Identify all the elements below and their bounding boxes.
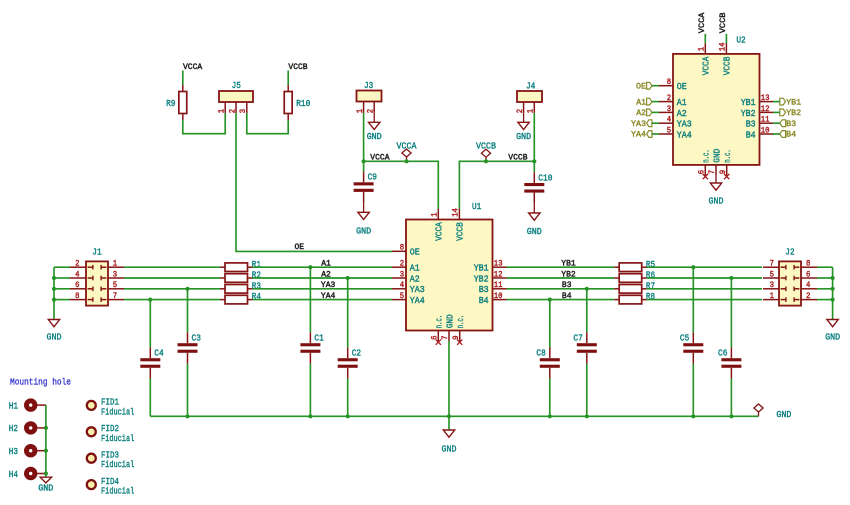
svg-text:n.c.: n.c. (722, 149, 733, 163)
svg-text:Fiducial: Fiducial (101, 459, 135, 470)
svg-text:B4: B4 (479, 295, 489, 306)
mounting hole H4 (9, 469, 46, 480)
svg-text:J3: J3 (364, 80, 373, 91)
svg-text:VCCB: VCCB (722, 56, 733, 75)
svg-text:GND: GND (47, 332, 62, 343)
wire J1 to R3 (124, 288, 220, 290)
wire U1 to R5 (507, 266, 615, 268)
svg-text:6: 6 (75, 282, 80, 290)
wire (817, 277, 833, 279)
wire GND bus (150, 415, 758, 417)
svg-text:A2: A2 (410, 273, 420, 284)
svg-text:YB1: YB1 (474, 263, 489, 274)
wire (652, 133, 659, 135)
svg-text:VCCA: VCCA (434, 222, 445, 241)
svg-text:2: 2 (517, 109, 525, 114)
junction (831, 276, 835, 280)
global label OE (636, 82, 652, 91)
svg-text:13: 13 (494, 261, 503, 269)
junction (346, 276, 350, 280)
svg-text:GND: GND (527, 226, 542, 237)
junction (585, 414, 589, 418)
svg-text:14: 14 (720, 42, 728, 51)
wire J1 to R2 (124, 277, 220, 279)
svg-text:Mounting hole: Mounting hole (10, 376, 71, 387)
ground (516, 122, 531, 142)
svg-text:5: 5 (667, 127, 672, 135)
svg-text:3: 3 (770, 282, 775, 290)
svg-text:R8: R8 (646, 291, 655, 302)
wire (704, 34, 706, 43)
junction (308, 414, 312, 418)
svg-text:J5: J5 (232, 80, 241, 91)
wire R2 to U1 (253, 277, 393, 279)
mounting hole H3 (9, 446, 46, 457)
resistor R7 (614, 280, 655, 293)
svg-text:OE: OE (410, 247, 420, 258)
ground (367, 122, 382, 142)
svg-text:YB1: YB1 (786, 98, 801, 107)
svg-text:GND: GND (356, 226, 371, 237)
svg-text:3: 3 (667, 106, 672, 114)
wire U1 to R7 (507, 288, 615, 290)
mounting hole H2 (9, 423, 46, 434)
wire U1 to R8 (507, 299, 615, 301)
junction (548, 414, 552, 418)
no-connect U2 pin 9 (724, 174, 729, 179)
junction (52, 276, 56, 280)
svg-text:14: 14 (453, 208, 461, 217)
svg-text:YA3: YA3 (677, 119, 692, 130)
svg-text:YA4: YA4 (677, 129, 692, 140)
svg-text:GND: GND (367, 131, 382, 142)
ground U2 (715, 176, 717, 183)
junction (308, 265, 312, 269)
svg-text:6: 6 (806, 271, 811, 279)
svg-text:C4: C4 (154, 348, 164, 359)
wire (183, 113, 225, 134)
svg-text:7: 7 (442, 335, 450, 340)
wire J1 ground bus (53, 267, 55, 319)
wire (54, 299, 70, 301)
wire (817, 288, 833, 290)
svg-text:2: 2 (229, 109, 237, 114)
wire R7 to J2 (647, 288, 762, 290)
svg-text:YB1: YB1 (741, 97, 756, 108)
wire (692, 364, 694, 417)
svg-text:OE: OE (295, 243, 305, 252)
resistor R8 (614, 291, 655, 304)
svg-text:B3: B3 (786, 120, 796, 129)
junction (691, 265, 695, 269)
global label A1 (636, 98, 652, 107)
wire to C6 (730, 278, 732, 347)
svg-text:R10: R10 (296, 98, 310, 109)
wire to C4 (149, 300, 151, 348)
svg-text:B3: B3 (479, 284, 489, 295)
resistor R3 (220, 280, 261, 293)
no-connect U1 pin 6 (436, 340, 441, 345)
svg-text:2: 2 (667, 95, 672, 103)
svg-text:A1: A1 (321, 260, 331, 269)
svg-text:VCCA: VCCA (698, 12, 707, 33)
svg-text:Fiducial: Fiducial (101, 406, 135, 417)
wire U1 to R6 (507, 277, 615, 279)
svg-text:8: 8 (667, 79, 672, 87)
svg-text:3: 3 (400, 271, 405, 279)
wire VCCB rail (459, 161, 534, 208)
svg-text:YB2: YB2 (786, 109, 801, 118)
capacitor C2 (338, 347, 361, 378)
resistor R6 (614, 270, 655, 283)
svg-text:4: 4 (667, 117, 672, 125)
fiducial FID4 (87, 476, 135, 497)
svg-text:A1: A1 (410, 263, 420, 274)
fiducial FID2 (87, 423, 135, 444)
svg-text:YA3: YA3 (410, 284, 425, 295)
connector J3 (357, 80, 382, 113)
svg-text:GND: GND (825, 331, 840, 342)
junction (831, 287, 835, 291)
svg-text:C2: C2 (352, 348, 361, 359)
svg-text:1: 1 (528, 109, 536, 114)
capacitor C3 (178, 332, 201, 363)
wire (247, 113, 288, 134)
wire to C8 (549, 300, 551, 348)
svg-text:C1: C1 (314, 333, 324, 344)
junction (585, 287, 589, 291)
global label A2 (636, 109, 652, 118)
svg-text:J4: J4 (526, 81, 536, 92)
global label YA3 (631, 120, 652, 129)
svg-text:A1: A1 (636, 98, 646, 107)
resistor R2 (220, 270, 261, 283)
svg-text:R3: R3 (252, 280, 261, 291)
wire (773, 111, 780, 113)
svg-text:R5: R5 (646, 259, 655, 270)
svg-text:GND: GND (444, 314, 455, 328)
wire R5 to J2 (647, 266, 762, 268)
wire (448, 416, 450, 430)
svg-text:11: 11 (494, 282, 503, 290)
svg-text:J1: J1 (92, 246, 102, 257)
resistor R9 (166, 85, 187, 120)
junction (52, 287, 56, 291)
junction (52, 298, 56, 302)
wire (586, 364, 588, 417)
junction (362, 159, 366, 163)
junction (44, 426, 48, 430)
junction (404, 159, 408, 163)
svg-text:2: 2 (400, 261, 405, 269)
junction (148, 298, 152, 302)
svg-text:A2: A2 (636, 109, 646, 118)
resistor R4 (220, 291, 261, 304)
connector J4 (517, 81, 542, 114)
svg-text:GND: GND (709, 195, 724, 206)
IC U2 (659, 34, 774, 175)
svg-text:n.c.: n.c. (701, 149, 712, 163)
svg-text:OE: OE (677, 81, 687, 92)
svg-text:H4: H4 (9, 469, 19, 480)
wire (549, 379, 551, 417)
svg-text:YA4: YA4 (321, 292, 336, 301)
svg-text:B3: B3 (746, 119, 756, 130)
svg-text:2: 2 (75, 261, 80, 269)
svg-text:C10: C10 (538, 172, 552, 183)
ground C9 (356, 212, 371, 236)
svg-text:B4: B4 (562, 292, 572, 301)
svg-text:R7: R7 (646, 280, 655, 291)
wire to C7 (586, 289, 588, 333)
ground mounting holes (38, 477, 53, 493)
svg-text:1: 1 (770, 293, 775, 301)
svg-text:Fiducial: Fiducial (101, 486, 135, 497)
svg-text:R1: R1 (252, 259, 262, 270)
wire J2 ground bus (832, 267, 834, 319)
svg-text:GND: GND (516, 131, 531, 142)
svg-text:4: 4 (806, 282, 811, 290)
wire (54, 277, 70, 279)
svg-text:YA4: YA4 (410, 295, 425, 306)
capacitor C7 (573, 332, 596, 363)
power symbol VCCA (397, 140, 417, 161)
svg-text:B4: B4 (786, 131, 796, 140)
svg-text:C8: C8 (536, 348, 545, 359)
svg-text:C6: C6 (718, 348, 727, 359)
junction (44, 449, 48, 453)
wire (54, 288, 70, 290)
resistor R5 (614, 259, 655, 272)
capacitor C10 (524, 172, 552, 203)
svg-text:1: 1 (219, 109, 227, 114)
wire (817, 266, 833, 268)
svg-text:GND: GND (442, 443, 457, 454)
svg-text:GND: GND (776, 409, 791, 420)
global label YB2 (780, 109, 801, 118)
svg-text:VCCA: VCCA (183, 63, 202, 72)
IC U1 (392, 201, 507, 341)
wire (182, 71, 184, 86)
wire (773, 101, 780, 103)
no-connect U2 pin 6 (703, 174, 708, 179)
wire to C5 (692, 267, 694, 332)
svg-text:R4: R4 (252, 291, 262, 302)
wire (309, 364, 311, 417)
junction (185, 287, 189, 291)
wire OE net (236, 113, 392, 252)
svg-text:YB1: YB1 (561, 260, 576, 269)
svg-text:3: 3 (240, 109, 248, 114)
mounting hole H1 (9, 400, 46, 411)
junction (447, 414, 451, 418)
svg-text:YA3: YA3 (631, 120, 646, 129)
svg-text:10: 10 (494, 293, 503, 301)
wire to C2 (347, 278, 349, 347)
svg-text:R2: R2 (252, 270, 261, 281)
ground J3 pin2 (373, 113, 375, 122)
wire (817, 299, 833, 301)
global label B3 (780, 120, 796, 129)
wire (730, 379, 732, 417)
capacitor C8 (536, 347, 559, 378)
svg-text:U1: U1 (472, 201, 482, 212)
svg-text:OE: OE (636, 82, 646, 91)
svg-text:C7: C7 (573, 333, 582, 344)
wire (652, 122, 659, 124)
capacitor C9 (354, 172, 377, 203)
svg-text:4: 4 (400, 282, 405, 290)
ground J2 (825, 320, 840, 343)
svg-text:VCCB: VCCB (288, 63, 307, 72)
svg-text:13: 13 (761, 95, 770, 103)
wire U1 GND (448, 341, 450, 416)
svg-text:12: 12 (494, 271, 503, 279)
fiducial FID1 (87, 397, 135, 418)
svg-text:C3: C3 (192, 333, 201, 344)
svg-text:4: 4 (75, 271, 80, 279)
junction (729, 276, 733, 280)
wire (363, 161, 365, 171)
junction (831, 298, 835, 302)
svg-text:1: 1 (699, 47, 707, 52)
svg-text:YB2: YB2 (474, 273, 489, 284)
wire R8 to J2 (647, 299, 762, 301)
wire (347, 379, 349, 417)
svg-text:A1: A1 (677, 97, 687, 108)
junction (44, 471, 48, 475)
wire R6 to J2 (647, 277, 762, 279)
svg-text:5: 5 (400, 293, 405, 301)
svg-text:8: 8 (400, 245, 405, 253)
svg-text:A2: A2 (321, 270, 331, 279)
wire (187, 364, 189, 417)
wire R3 to U1 (253, 288, 393, 290)
svg-text:VCCA: VCCA (397, 140, 417, 151)
wire (725, 34, 727, 43)
svg-text:6: 6 (699, 170, 707, 175)
wire R4 to U1 (253, 299, 393, 301)
svg-text:J2: J2 (785, 246, 794, 257)
wire (533, 113, 535, 161)
svg-text:R9: R9 (166, 98, 175, 109)
wire to C3 (187, 289, 189, 333)
capacitor C4 (140, 347, 164, 378)
svg-text:VCCB: VCCB (719, 12, 728, 33)
svg-text:YB2: YB2 (561, 270, 576, 279)
svg-text:YA4: YA4 (631, 131, 646, 140)
svg-text:YB2: YB2 (741, 108, 756, 119)
svg-text:C5: C5 (680, 333, 689, 344)
wire R1 to U1 (253, 266, 393, 268)
wire (773, 122, 780, 124)
svg-text:H1: H1 (9, 400, 19, 411)
svg-text:GND: GND (38, 482, 53, 493)
junction (532, 159, 536, 163)
svg-text:9: 9 (720, 170, 728, 175)
wire VCCA rail (364, 161, 439, 208)
svg-text:3: 3 (113, 271, 118, 279)
global label YB1 (780, 98, 801, 107)
svg-text:n.c.: n.c. (434, 315, 445, 329)
svg-text:VCCB: VCCB (455, 222, 466, 241)
ground J4 pin2 (523, 113, 525, 122)
svg-text:GND: GND (711, 148, 722, 162)
wire (773, 133, 780, 135)
svg-text:2: 2 (368, 109, 376, 114)
power symbol GND flag (754, 404, 763, 416)
capacitor C1 (300, 332, 324, 363)
wire (652, 111, 659, 113)
connector J1 (70, 246, 124, 305)
svg-text:B4: B4 (746, 129, 756, 140)
svg-text:12: 12 (761, 106, 770, 114)
svg-text:B3: B3 (562, 281, 572, 290)
power symbol VCCB (476, 141, 496, 162)
wire (533, 161, 535, 172)
svg-text:H3: H3 (9, 446, 18, 457)
svg-text:10: 10 (761, 127, 770, 135)
resistor R1 (220, 259, 261, 272)
svg-text:U2: U2 (736, 34, 745, 45)
svg-text:1: 1 (113, 261, 118, 269)
connector J2 (763, 246, 817, 305)
svg-text:7: 7 (709, 170, 717, 175)
wire J1 to R1 (124, 266, 220, 268)
svg-text:5: 5 (770, 271, 775, 279)
svg-text:VCCA: VCCA (701, 56, 712, 75)
svg-text:H2: H2 (9, 423, 18, 434)
global label YA4 (631, 131, 652, 140)
svg-text:R6: R6 (646, 270, 655, 281)
svg-text:A2: A2 (677, 108, 687, 119)
ground C10 (527, 213, 542, 237)
svg-text:9: 9 (453, 335, 461, 340)
junction (691, 414, 695, 418)
svg-text:1: 1 (357, 109, 365, 114)
wire (54, 266, 70, 268)
junction (548, 298, 552, 302)
no-connect U1 pin 9 (457, 340, 462, 345)
junction (346, 414, 350, 418)
ground U1 (442, 430, 457, 454)
svg-text:YA3: YA3 (321, 281, 336, 290)
wire J1 to R4 (124, 299, 220, 301)
svg-text:C9: C9 (368, 172, 377, 183)
wire (652, 85, 659, 87)
junction (185, 414, 189, 418)
wire (363, 113, 365, 161)
capacitor C5 (680, 332, 703, 363)
global label B4 (780, 131, 796, 140)
svg-text:VCCB: VCCB (476, 141, 496, 152)
svg-text:1: 1 (432, 212, 440, 217)
connector J5 (219, 80, 253, 113)
wire mounting hole ground (45, 405, 47, 477)
wire (287, 71, 289, 86)
capacitor C6 (718, 347, 741, 378)
junction (729, 414, 733, 418)
svg-text:8: 8 (806, 261, 811, 269)
svg-text:11: 11 (761, 117, 770, 125)
wire (652, 101, 659, 103)
svg-text:5: 5 (113, 282, 118, 290)
fiducial FID3 (87, 449, 135, 470)
ground (709, 183, 724, 206)
svg-text:2: 2 (806, 293, 811, 301)
junction (484, 159, 488, 163)
wire (149, 379, 151, 417)
